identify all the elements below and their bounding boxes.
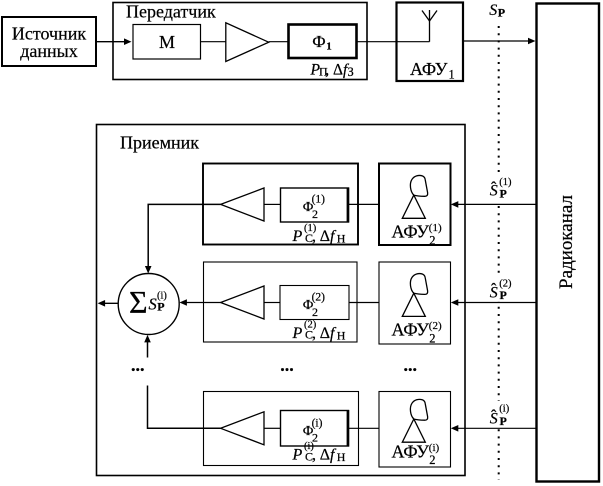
svg-text:...: ... [404, 355, 418, 375]
wire: filter to amplifier branch 1 [264, 203, 280, 205]
svg-text:Приемник: Приемник [120, 133, 199, 153]
filter F1 (Ф1) [289, 25, 357, 59]
data source box (Источник данных) [2, 17, 96, 66]
wire: filter to amplifier branch 2 [264, 302, 280, 304]
wire: F2(2) to AFU2(2) [349, 302, 379, 304]
antenna symbol in AFU1 [397, 10, 438, 42]
svg-text:Передатчик: Передатчик [126, 2, 216, 22]
node label S_P (transmitted signal) [484, 2, 514, 20]
node label S^_P(1) [486, 174, 514, 202]
svg-text:Радиоканал: Радиоканал [556, 195, 577, 289]
svg-text:...: ... [280, 355, 294, 375]
dish antenna icon branch 2 [402, 274, 427, 317]
svg-text:ˆ: ˆ [491, 179, 497, 196]
summator circle [118, 274, 179, 335]
amplifier triangle branch i [221, 412, 264, 445]
node label S^_P(2) [486, 275, 514, 302]
radio channel box (Радиоканал) [537, 4, 600, 482]
filter F2(i) [281, 410, 349, 447]
wire+arrow: radio channel to AFU2(i) [451, 425, 536, 432]
dish antenna icon branch i [402, 399, 427, 442]
receiver branch i box [204, 392, 359, 466]
antenna unit AFU2(1) [379, 164, 451, 248]
wire+arrow: AFU1 to radio channel [463, 38, 536, 45]
wire: F2(1) to AFU2(1) [349, 203, 379, 205]
wire+arrow: radio channel to AFU2(2) [451, 299, 536, 306]
wire+arrow: radio channel to AFU2(1) [451, 201, 536, 208]
filter F2(1) [281, 188, 349, 223]
svg-text:ˆ: ˆ [491, 407, 497, 424]
wire: filter to amplifier branch i [264, 427, 280, 429]
wire: branch 1 to summator (left then down) [145, 204, 221, 273]
receiver branch 2 box [204, 262, 358, 342]
receiver branch 1 box [203, 164, 358, 245]
dotted propagation line [498, 26, 500, 480]
filter F2(2) [280, 286, 349, 320]
antenna unit AFU2(i) [379, 392, 451, 468]
amplifier triangle (transmitter) [226, 23, 269, 62]
wire: data source to modulator M [96, 38, 132, 45]
output arrow from summator [98, 300, 119, 307]
dish antenna icon branch 1 [402, 175, 427, 218]
amplifier triangle branch 1 [221, 188, 264, 221]
svg-text:...: ... [131, 355, 145, 375]
antenna feeder unit AFU1 (АФУ1) [397, 3, 464, 82]
amplifier triangle branch 2 [221, 286, 264, 319]
modulator M [133, 25, 201, 60]
svg-text:SР(i): SР(i) [149, 291, 168, 314]
wire: amplifier to filter F1 [269, 41, 288, 43]
receiver box (Приемник) [97, 125, 466, 476]
svg-text:М: М [159, 32, 175, 52]
svg-text:Σ: Σ [129, 284, 148, 320]
wire: M to amplifier [201, 41, 227, 43]
wire: F1 to AFU1 [357, 41, 396, 43]
antenna unit AFU2(2) [379, 262, 451, 346]
svg-text:данных: данных [20, 41, 78, 61]
transmitter box (Передатчик) [113, 2, 367, 80]
wire: F2(i) to AFU2(i) [349, 427, 379, 429]
svg-text:ˆ: ˆ [491, 281, 497, 298]
wire+arrow: branch 2 to summator [179, 299, 220, 306]
wire: branch i to summator (left then up, with break) [144, 335, 220, 428]
node label S^_P(i) [486, 401, 514, 428]
